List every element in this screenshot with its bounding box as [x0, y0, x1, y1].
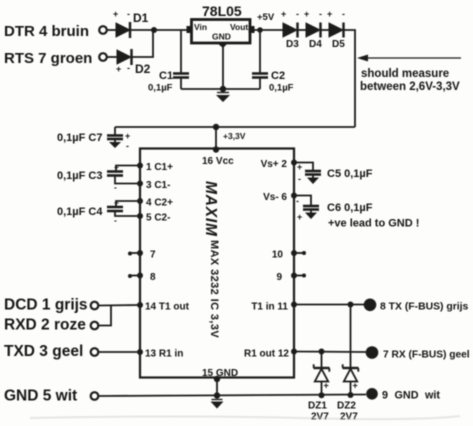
svg-text:between 2,6V-3,3V: between 2,6V-3,3V	[360, 81, 460, 93]
node DZ2 tap	[348, 302, 354, 308]
pin 10 stub	[272, 250, 306, 261]
capacitor C3	[57, 162, 140, 192]
svg-text:9 GND wit: 9 GND wit	[382, 390, 440, 402]
diode D4	[304, 9, 322, 50]
wire pin 11 to TX terminal	[294, 304, 364, 306]
node DZ1/rail	[319, 392, 325, 398]
svg-text:RXD 2 roze: RXD 2 roze	[4, 317, 86, 334]
svg-text:16 Vcc: 16 Vcc	[202, 156, 234, 167]
svg-text:MAX 3232 IC 3,3V: MAX 3232 IC 3,3V	[208, 240, 220, 338]
pin 5 C2-	[137, 213, 143, 219]
zener DZ1	[308, 352, 330, 423]
node DZ1 tap	[319, 349, 325, 355]
svg-text:C2: C2	[271, 70, 285, 82]
svg-text:+: +	[324, 381, 329, 391]
svg-text:T1 in 11: T1 in 11	[251, 302, 288, 313]
svg-text:+: +	[113, 9, 118, 19]
node C2 tap	[257, 27, 263, 33]
svg-text:Vs- 6: Vs- 6	[263, 192, 287, 203]
svg-text:C1: C1	[159, 70, 173, 82]
pin 2 Vs+	[291, 160, 297, 166]
svg-text:9: 9	[276, 272, 282, 283]
svg-text:4 C2+: 4 C2+	[146, 198, 173, 209]
svg-text:+: +	[327, 9, 332, 19]
node junction D2	[151, 27, 157, 33]
capacitor C7	[57, 127, 130, 151]
svg-text:DCD 1 grijs: DCD 1 grijs	[4, 297, 88, 314]
svg-text:+ve lead to GND !: +ve lead to GND !	[328, 218, 419, 230]
svg-text:14 T1 out: 14 T1 out	[145, 302, 190, 313]
svg-text:10: 10	[272, 250, 284, 261]
svg-text:2V7: 2V7	[311, 412, 329, 423]
node Vcc tap	[213, 124, 219, 130]
svg-text:DTR 4 bruin: DTR 4 bruin	[4, 23, 89, 40]
IC U2 MAX3232 body	[140, 149, 294, 378]
svg-text:D1: D1	[133, 11, 149, 25]
svg-text:MAXIM: MAXIM	[202, 181, 219, 237]
wire	[107, 29, 116, 31]
svg-text:0,1µF: 0,1µF	[269, 83, 294, 94]
svg-text:R1 out 12: R1 out 12	[244, 349, 289, 360]
svg-text:0,1µF C4: 0,1µF C4	[57, 206, 103, 218]
svg-text:Vs+ 2: Vs+ 2	[261, 159, 288, 170]
wire ground rail of regulator	[181, 88, 260, 90]
terminal RTS (pin 7)	[99, 53, 107, 61]
svg-text:DZ1: DZ1	[308, 401, 327, 412]
wire Vcc drop	[215, 127, 217, 149]
wire pin 12 to RX terminal	[294, 351, 366, 354]
svg-text:-: -	[126, 141, 129, 151]
scan smudge bottom	[30, 416, 460, 419]
svg-text:-: -	[296, 196, 299, 206]
terminal DTR (pin 4)	[99, 26, 107, 34]
wire	[107, 56, 117, 58]
pin 6 Vs-	[291, 193, 297, 199]
svg-text:C6 0,1µF: C6 0,1µF	[327, 202, 373, 214]
wire DCD to pin 14	[99, 304, 141, 307]
svg-text:+: +	[297, 162, 302, 172]
svg-text:-: -	[127, 63, 130, 73]
svg-text:+3,3V: +3,3V	[223, 131, 246, 141]
wire	[321, 29, 330, 31]
svg-text:+: +	[116, 64, 121, 74]
terminal 8 TX	[364, 299, 377, 312]
pin 4 C2+	[137, 198, 143, 204]
svg-text:D2: D2	[135, 62, 151, 76]
svg-text:DZ2: DZ2	[337, 401, 356, 412]
zener DZ2	[337, 305, 359, 423]
pin 11 T1 in	[291, 302, 297, 308]
svg-text:+: +	[114, 198, 119, 208]
wire D1 to regulator	[130, 29, 188, 31]
svg-text:3 C1-: 3 C1-	[146, 180, 170, 191]
diode D1	[113, 9, 149, 38]
pin 16 node	[213, 146, 219, 152]
svg-text:-: -	[127, 9, 130, 19]
svg-text:Vout: Vout	[230, 22, 248, 32]
svg-text:15 GND: 15 GND	[202, 368, 238, 379]
svg-text:+: +	[353, 381, 358, 391]
svg-text:78L05: 78L05	[202, 3, 242, 19]
svg-text:8 TX (F-BUS) grijs: 8 TX (F-BUS) grijs	[380, 302, 469, 313]
svg-text:-: -	[298, 174, 301, 184]
svg-text:Vin: Vin	[194, 22, 207, 32]
svg-text:0,1µF: 0,1µF	[148, 83, 173, 94]
svg-text:GND: GND	[212, 32, 231, 42]
pin 9 stub	[276, 272, 306, 283]
terminal GND (pin 5)	[91, 392, 99, 400]
wire +3,3V rail	[115, 126, 355, 128]
capacitor C5	[294, 162, 373, 184]
pin 14 T1 out	[137, 302, 143, 308]
diode D2	[116, 49, 151, 76]
svg-text:C5 0,1µF: C5 0,1µF	[327, 168, 373, 180]
node DZ2/rail	[348, 392, 354, 398]
regulator U1 78L05	[187, 3, 255, 48]
svg-text:13 R1 in: 13 R1 in	[145, 349, 183, 360]
svg-text:+5V: +5V	[257, 12, 275, 23]
svg-text:0,1µF C3: 0,1µF C3	[57, 170, 102, 182]
svg-text:+: +	[125, 131, 130, 141]
svg-text:7: 7	[150, 250, 156, 261]
annotation arrow	[357, 55, 461, 94]
svg-text:+: +	[281, 9, 286, 19]
wire D5 down to 3.3V rail	[344, 30, 356, 127]
wire regulator GND down	[222, 45, 224, 89]
capacitor C4	[57, 198, 140, 226]
terminal DCD (pin 1)	[91, 302, 99, 310]
terminal 9 GND	[366, 388, 378, 400]
capacitor C6	[294, 196, 419, 230]
capacitor C2	[252, 30, 294, 94]
wire Vout to D3	[254, 29, 283, 31]
wire RXD joins DCD net	[99, 305, 112, 325]
pin 13 R1 in	[137, 349, 143, 355]
ground symbol (rail)	[211, 400, 224, 409]
svg-text:1 C1+: 1 C1+	[146, 162, 173, 173]
wire D2 up to D1 net	[132, 30, 154, 57]
svg-text:2V7: 2V7	[340, 412, 358, 423]
svg-text:8: 8	[150, 272, 156, 283]
node	[220, 86, 226, 92]
svg-text:-: -	[319, 9, 322, 19]
wire	[298, 29, 307, 31]
svg-text:+: +	[297, 212, 302, 222]
svg-text:0,1µF C7: 0,1µF C7	[57, 132, 102, 144]
diode D3	[281, 9, 299, 50]
svg-text:should measure: should measure	[361, 68, 449, 80]
pin 1 C1+	[137, 163, 143, 169]
svg-text:D4: D4	[309, 39, 322, 50]
svg-text:7 RX (F-BUS) geel: 7 RX (F-BUS) geel	[383, 350, 470, 361]
svg-text:+: +	[304, 9, 309, 19]
wire ground rail bottom	[99, 395, 367, 397]
svg-text:5 C2-: 5 C2-	[146, 213, 170, 224]
svg-text:-: -	[296, 9, 299, 19]
pin 3 C1-	[137, 181, 143, 187]
terminal RXD (pin 2)	[91, 322, 99, 330]
svg-text:GND 5 wit: GND 5 wit	[4, 388, 77, 405]
node pin15/rail	[214, 392, 220, 398]
capacitor C1	[148, 30, 189, 94]
svg-text:-: -	[114, 182, 117, 192]
svg-text:-: -	[342, 9, 345, 19]
pin 15 node	[214, 376, 220, 382]
diode D5	[327, 9, 345, 50]
wire pin 15 down	[216, 378, 218, 396]
svg-text:D5: D5	[332, 39, 345, 50]
svg-text:D3: D3	[286, 39, 299, 50]
terminal 7 RX	[366, 346, 379, 359]
ground symbol (regulator)	[216, 93, 230, 103]
terminal TXD (pin 3)	[91, 348, 99, 356]
pin 7 stub	[128, 250, 156, 261]
wire TXD to pin 13	[99, 351, 141, 353]
svg-text:+: +	[114, 162, 119, 172]
svg-text:-: -	[114, 215, 117, 225]
pin 12 R1 out	[291, 349, 297, 355]
svg-text:TXD 3 geel: TXD 3 geel	[4, 343, 83, 360]
pin 8 stub	[128, 272, 156, 283]
svg-text:RTS 7 groen: RTS 7 groen	[4, 50, 92, 67]
